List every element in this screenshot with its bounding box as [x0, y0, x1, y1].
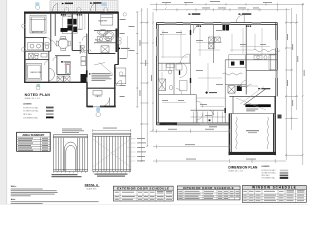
INTERIOR DOOR SCHEDULE [177, 186, 240, 200]
window arrow label 2 [239, 13, 242, 15]
bottom wall [24, 81, 87, 83]
master south wall [89, 53, 116, 55]
master toilet [81, 46, 84, 48]
pantry shelves [80, 14, 85, 30]
garage door arc [101, 98, 110, 107]
bottom page edge [0, 204, 308, 205]
svg-text:SCALE: NTS: SCALE: NTS [87, 187, 98, 190]
top dim texts [162, 1, 272, 8]
bath fixtures upper right [254, 55, 276, 70]
arched opening [64, 142, 77, 171]
hall tub [66, 63, 71, 75]
svg-text:WINDOW SCHEDULE: WINDOW SCHEDULE [252, 186, 296, 190]
closet rod wavy 1 [223, 73, 243, 75]
left wall [156, 23, 158, 125]
bed 1 [30, 15, 46, 33]
right dim tiny texts [140, 34, 305, 106]
bath1 top wall [25, 50, 51, 52]
wic dark header [179, 70, 180, 75]
svg-text:KITCHEN: KITCHEN [63, 16, 73, 18]
washer dryer [57, 76, 63, 82]
svg-text:INTERIOR DOOR SCHEDULE: INTERIOR DOOR SCHEDULE [183, 186, 234, 190]
bath divider wall [270, 54, 272, 70]
hallbath left wall [56, 56, 58, 75]
sill ticks wall2 [93, 171, 130, 173]
leader line [94, 63, 105, 66]
appliance black 3 [67, 25, 72, 30]
top wall [24, 12, 119, 14]
right plan top wall [156, 23, 277, 25]
svg-text:LEGEND: LEGEND [262, 166, 271, 168]
wic double door arcs [180, 63, 188, 78]
svg-text:DIMENSION PLAN: DIMENSION PLAN [228, 165, 258, 169]
dim line right of left plan [136, 12, 138, 107]
master tub [104, 31, 115, 40]
range black wide [61, 28, 68, 32]
aux dim line [127, 36, 129, 58]
appliance black 2 [73, 19, 76, 25]
laundry door arcs [241, 81, 252, 90]
legend swatch 2 [46, 110, 54, 112]
door arc top wall 2 (swings out) [236, 15, 244, 23]
dark mark right of porch [278, 115, 282, 119]
teal marker below bed2 [37, 84, 41, 87]
shower right plan [158, 79, 165, 91]
bath fixtures right plan [167, 64, 183, 74]
closet doors [48, 68, 55, 81]
fireplace top wall black 1 [223, 25, 226, 31]
svg-text:DETAIL A: DETAIL A [85, 183, 99, 187]
svg-text:BATH: BATH [95, 39, 101, 42]
detail wall 2 studs [93, 133, 132, 171]
mudroom door arc [208, 110, 213, 115]
dim arrow above wall2 [93, 129, 131, 132]
kitchen black cell 2 [240, 61, 244, 65]
corridor wall [86, 34, 88, 83]
garage left wall [232, 96, 234, 113]
bottom-left wall [156, 123, 229, 125]
mudroom black dot [209, 119, 211, 121]
mudroom cubbies [191, 112, 226, 123]
step-down wall [86, 82, 88, 107]
porch tile hatch [50, 1, 118, 12]
pantry label [77, 29, 83, 30]
bath toilet right plan [169, 85, 172, 89]
dark wall segment [160, 122, 178, 125]
toilet bath2 [35, 53, 39, 55]
entry door arc right [90, 3, 95, 11]
porch right wall [274, 96, 276, 155]
svg-text:DINING: DINING [60, 39, 68, 41]
master suite divider [88, 13, 90, 54]
vanity bath1 [28, 42, 43, 50]
hall door arcs right plan [181, 54, 203, 120]
master tub oval [98, 30, 108, 36]
tv wall [72, 50, 81, 52]
master double vanity [97, 37, 111, 42]
interior dim texts right plan [162, 30, 266, 116]
svg-text:W: W [58, 78, 60, 80]
mudroom header dark [225, 108, 226, 113]
blue pin garage [96, 107, 100, 112]
bath tub right plan [180, 81, 188, 91]
master shower [101, 46, 109, 53]
shower bath2 [29, 53, 34, 59]
legend swatch 3 [46, 113, 54, 115]
note diamond [205, 91, 208, 94]
wic shelving right plan [158, 64, 182, 95]
top dim line 1 [150, 3, 304, 12]
hall bullet note [61, 61, 63, 63]
right wall [276, 23, 278, 97]
arrow label porch right [90, 2, 93, 4]
closet wall [54, 13, 56, 36]
porch bottom wall [229, 152, 277, 155]
blue tag icon top-left [35, 2, 39, 6]
bath1 bottom wall [25, 59, 49, 61]
bath bottom wall [246, 70, 277, 72]
room labels left plan [31, 16, 108, 98]
laundry top wall [225, 84, 246, 86]
legend swatch 4 [46, 117, 54, 119]
garage window [93, 91, 102, 96]
blue tag icon top-mid [102, 3, 107, 6]
svg-text:BEDROOM: BEDROOM [32, 32, 43, 34]
dining table [58, 39, 68, 49]
right legend swatch 3 [280, 175, 289, 177]
sink bath2 [41, 53, 47, 57]
thick black wall segment [245, 104, 270, 107]
door arc bedroom1 [47, 37, 51, 41]
svg-text:BEDROOM: BEDROOM [31, 72, 42, 74]
bath1 inner wall [43, 37, 45, 51]
bedroom2 right wall [48, 51, 50, 82]
furniture [26, 14, 114, 106]
porch left wall [229, 114, 231, 156]
svg-text:Attic:: Attic: [11, 198, 16, 201]
hallbath bottom wall [57, 74, 70, 76]
svg-text:LEGEND: LEGEND [23, 103, 32, 105]
window fills top wall [183, 23, 191, 25]
interior door arcs left plan [44, 36, 88, 65]
appliance black 1 [67, 19, 72, 25]
hall wall [50, 13, 52, 52]
sofa diagonal [100, 63, 114, 75]
appliance black 4 [73, 27, 77, 32]
garage label [209, 126, 217, 127]
legend swatch 1 [46, 107, 54, 109]
detail wall 1 studs [53, 135, 88, 172]
svg-text:SCALE: 1/4" = 1'-0": SCALE: 1/4" = 1'-0" [228, 169, 243, 172]
closet scallops [82, 50, 92, 52]
hallbath top wall [55, 55, 70, 57]
svg-text:NOTED PLAN: NOTED PLAN [25, 93, 51, 97]
closet rod wavy 2 [253, 49, 281, 51]
wall x=246 [245, 25, 247, 95]
right wall dark segment at bath [116, 29, 118, 53]
caption wall1 [52, 174, 82, 177]
linen closet squares [81, 57, 86, 61]
window arrow label 1 [189, 13, 192, 15]
garage door gap [93, 105, 100, 107]
laundry washer xbox [228, 86, 235, 93]
svg-text:EXTERIOR DOOR SCHEDULE: EXTERIOR DOOR SCHEDULE [117, 187, 169, 191]
arrow label laundry [258, 88, 260, 90]
detail wall1 text above [62, 129, 84, 133]
kitchen counter [229, 55, 246, 68]
let-in braces [93, 139, 131, 167]
kitchen wall [71, 13, 73, 51]
master bed/bath wall [94, 29, 118, 31]
svg-text:Walls:: Walls: [11, 186, 17, 188]
kitchen counter [62, 14, 77, 33]
bed 2 [26, 64, 42, 81]
garage right wall [114, 65, 116, 108]
pad arc [117, 81, 122, 86]
island boxes with X [209, 37, 221, 49]
interior walls right plan [158, 25, 277, 123]
arrow label porch left [62, 3, 65, 5]
right legend swatch 4 [280, 177, 289, 179]
dim text right of plan [120, 19, 135, 97]
right legend swatch 2 [280, 172, 289, 174]
window tick pairs below top wall [61, 14, 82, 16]
dim col ticks left [141, 10, 154, 162]
extra interior dim strings [161, 34, 255, 98]
left dim columns [140, 8, 153, 162]
porch label [246, 130, 259, 131]
garage top wall [229, 95, 275, 97]
stair diagonal [236, 87, 267, 111]
sill ticks wall1 [53, 171, 86, 173]
bottom dim texts [168, 129, 256, 160]
garage bottom wall [87, 106, 116, 108]
EXTERIOR DOOR SCHEDULE [114, 186, 174, 201]
door tag circles top [22, 5, 127, 117]
svg-text:AREA SUMMARY: AREA SUMMARY [22, 133, 44, 137]
left wall [24, 12, 26, 83]
bullet note right wall [118, 48, 120, 50]
interior dim arrows [160, 28, 270, 107]
right legend swatch 1 [280, 170, 289, 172]
master bath notes text block [89, 73, 113, 81]
garage bottom wall [229, 113, 275, 115]
kitchen black cell 1 [231, 62, 235, 66]
garage top wall [87, 87, 116, 89]
interior: bedroom1 south wall [25, 36, 47, 38]
svg-text:MASTER: MASTER [99, 20, 108, 23]
toilet bath1 [45, 43, 49, 45]
left page edge band [0, 0, 7, 205]
wall2 leader labels right [127, 139, 136, 162]
wic wall [94, 42, 115, 44]
caption wall2 [95, 174, 128, 177]
fireplace top wall black 2 [226, 25, 229, 31]
window ticks below top wall right plan [197, 25, 252, 27]
right wall [117, 12, 119, 65]
laundry dryer black [237, 86, 242, 92]
master bed [101, 14, 113, 25]
WINDOW SCHEDULE [242, 186, 306, 203]
wall headers x190 [190, 30, 191, 35]
bottom dim lines [150, 129, 286, 163]
porch insulation squiggles [236, 117, 269, 149]
outside pad [116, 68, 126, 84]
stair text under bar [246, 108, 258, 111]
AREA SUMMARY table [17, 132, 51, 151]
dim col ticks right [285, 3, 304, 156]
fireplace black [81, 74, 87, 82]
wall jog [115, 64, 119, 66]
door arc top wall 1 [194, 25, 203, 33]
entry door arc left [53, 3, 58, 11]
corridor dark header [86, 70, 88, 77]
mudroom wall [191, 109, 226, 111]
svg-text:SCALE: 1/4" = 1'-0": SCALE: 1/4" = 1'-0" [25, 97, 41, 100]
wc wall [79, 45, 81, 54]
right dim columns [285, 4, 303, 165]
svg-text:PATIO: PATIO [96, 95, 102, 98]
bath top wall [246, 53, 277, 55]
